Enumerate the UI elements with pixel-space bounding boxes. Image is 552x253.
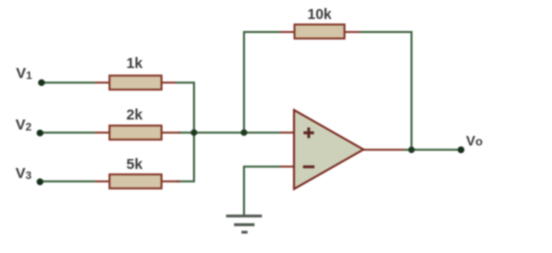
pin op-amp minus input bbox=[280, 166, 294, 168]
wire R3 right to node A bbox=[176, 133, 194, 182]
wire op-amp minus input to ground bbox=[244, 167, 280, 216]
pin R2 left bbox=[95, 132, 110, 134]
terminal dot V1 bbox=[38, 79, 45, 86]
pin R3 left bbox=[95, 180, 110, 182]
svg-text:Vo: Vo bbox=[466, 133, 483, 149]
node C junction dot bbox=[408, 147, 415, 154]
terminal dot V2 bbox=[37, 130, 44, 137]
resistor R3 5k bbox=[110, 174, 162, 188]
pin R1 left bbox=[95, 82, 110, 84]
wire node A to node B bbox=[178, 132, 244, 134]
wire node C to Vo terminal bbox=[412, 149, 462, 151]
resistor R2 2k bbox=[110, 126, 162, 140]
terminal dot V3 bbox=[37, 178, 44, 185]
pin R2 right bbox=[161, 132, 180, 134]
svg-text:V3: V3 bbox=[16, 165, 32, 182]
wire V2 terminal to R2 bbox=[40, 132, 95, 134]
ground bbox=[226, 216, 262, 232]
svg-text:1k: 1k bbox=[126, 56, 143, 72]
wire V3 terminal to R3 bbox=[40, 180, 95, 182]
wire V1 terminal to R1 bbox=[42, 82, 95, 84]
resistor R1 1k bbox=[110, 76, 162, 90]
svg-text:2k: 2k bbox=[126, 107, 143, 123]
svg-text:10k: 10k bbox=[307, 7, 332, 23]
resistor R4 10k feedback bbox=[295, 25, 345, 39]
wire feedback left: node B up and to R4 bbox=[244, 32, 280, 133]
pin R1 right bbox=[161, 82, 176, 84]
pin R4 right bbox=[344, 31, 360, 33]
svg-text:V1: V1 bbox=[16, 65, 32, 82]
pin op-amp output bbox=[364, 149, 405, 151]
wire feedback right: R4 to output node C bbox=[360, 32, 412, 150]
pin R4 left bbox=[280, 31, 295, 33]
node B junction dot bbox=[241, 129, 248, 136]
pin R3 right bbox=[161, 180, 180, 182]
op-amp plus symbol bbox=[304, 128, 315, 139]
wire node B to op-amp plus input bbox=[244, 132, 280, 134]
wire op-amp output to node C bbox=[404, 149, 412, 151]
op-amp minus symbol bbox=[303, 165, 315, 168]
wire R1 right to node A bbox=[176, 83, 194, 133]
svg-text:V2: V2 bbox=[16, 117, 32, 134]
svg-text:5k: 5k bbox=[126, 157, 143, 173]
op-amp U1 bbox=[294, 110, 364, 189]
terminal dot Vo bbox=[458, 146, 465, 153]
pin op-amp plus input bbox=[280, 132, 294, 134]
node A junction dot bbox=[191, 129, 198, 136]
